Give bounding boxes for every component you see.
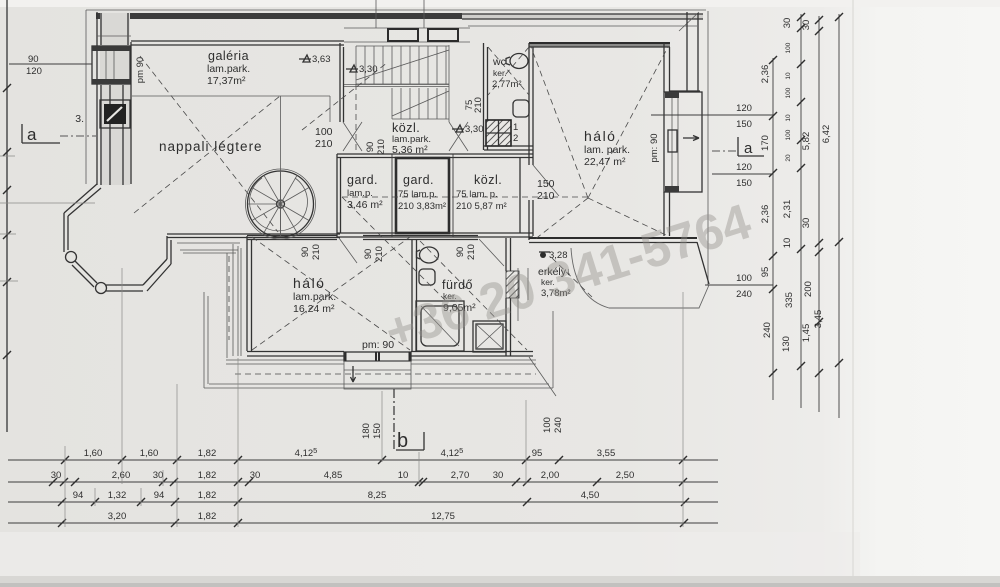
svg-text:100: 100 bbox=[785, 87, 792, 98]
svg-text:30: 30 bbox=[801, 20, 812, 31]
svg-text:gard.: gard. bbox=[347, 173, 378, 187]
svg-text:240: 240 bbox=[762, 322, 773, 338]
left edge chain bbox=[6, 0, 8, 432]
fürdő bathtub bbox=[416, 301, 464, 351]
wall gard row top bbox=[337, 154, 533, 158]
svg-text:30: 30 bbox=[51, 470, 62, 481]
svg-text:30: 30 bbox=[250, 470, 261, 481]
chimney flue black left bbox=[100, 100, 130, 128]
svg-text:30: 30 bbox=[153, 470, 164, 481]
svg-text:2,00: 2,00 bbox=[541, 470, 560, 481]
svg-text:210: 210 bbox=[374, 246, 385, 262]
bay railing upper diagonal bbox=[64, 184, 101, 216]
svg-text:2,60: 2,60 bbox=[112, 470, 131, 481]
stair dashed edge bbox=[355, 84, 357, 150]
leader 100/240 bbox=[705, 273, 773, 300]
eaves outline right bbox=[707, 11, 709, 285]
svg-text:2,36: 2,36 bbox=[760, 65, 771, 84]
right chain col3 bbox=[818, 16, 820, 412]
right chain col1 bbox=[772, 58, 774, 400]
wall corner miter top-right bbox=[679, 12, 699, 31]
svg-text:210 5,87 m²: 210 5,87 m² bbox=[456, 201, 507, 212]
fürdő shower bbox=[473, 321, 506, 352]
wall fürdő top-right corner bbox=[506, 238, 511, 271]
svg-text:240: 240 bbox=[736, 289, 752, 300]
right chain col4 bbox=[838, 14, 840, 418]
wall between halo2 and fürdő bbox=[412, 239, 417, 351]
level mark 3,30 közl bbox=[452, 124, 484, 135]
svg-text:lam.park.: lam.park. bbox=[293, 291, 336, 303]
railing post 2 bbox=[96, 283, 107, 294]
svg-text:3,46 m²: 3,46 m² bbox=[347, 199, 383, 211]
svg-text:1,82: 1,82 bbox=[198, 511, 217, 522]
dimension row 2 bbox=[8, 481, 718, 483]
svg-text:8,25: 8,25 bbox=[368, 490, 387, 501]
svg-text:150: 150 bbox=[372, 423, 383, 439]
svg-text:90: 90 bbox=[365, 142, 376, 153]
svg-text:2,50: 2,50 bbox=[616, 470, 635, 481]
galéria floor edge horizontal bbox=[132, 96, 330, 122]
level mark 3,28 erkély bbox=[539, 250, 568, 261]
svg-text:210 3,83m²: 210 3,83m² bbox=[398, 201, 446, 212]
dim 100/240 bottom window leader bbox=[542, 417, 564, 433]
eaves outline top bbox=[86, 9, 706, 11]
svg-text:lam.p.: lam.p. bbox=[347, 188, 373, 199]
svg-text:1,60: 1,60 bbox=[84, 448, 103, 459]
section line b dash-dot bbox=[393, 389, 395, 452]
svg-text:2,36: 2,36 bbox=[760, 205, 771, 224]
wall outer right of fürdő bbox=[518, 268, 528, 321]
svg-text:1,82: 1,82 bbox=[198, 490, 217, 501]
section marker a left bbox=[22, 124, 96, 144]
svg-text:90: 90 bbox=[28, 54, 39, 65]
svg-text:3,45: 3,45 bbox=[813, 310, 824, 329]
svg-text:210: 210 bbox=[311, 244, 322, 260]
wall top dark band bbox=[96, 13, 462, 19]
stair flight lower bbox=[392, 45, 449, 122]
wall halo2 left bbox=[247, 236, 252, 351]
svg-text:95: 95 bbox=[532, 448, 543, 459]
svg-text:4,50: 4,50 bbox=[581, 490, 600, 501]
wall halo left (wc column) bbox=[529, 43, 533, 240]
wall top band right part bbox=[462, 14, 703, 19]
svg-text:wc: wc bbox=[492, 56, 506, 68]
wall top inner line bbox=[468, 25, 697, 27]
svg-text:150: 150 bbox=[736, 178, 752, 189]
railing diagonal 3 bbox=[143, 259, 171, 291]
dimension row 1 bbox=[8, 459, 718, 461]
closet gard2 thick walls bbox=[396, 158, 449, 233]
svg-text:1,32: 1,32 bbox=[108, 490, 127, 501]
wall halo top bbox=[529, 42, 670, 44]
svg-text:100: 100 bbox=[785, 42, 792, 53]
roof valley to stair top bbox=[302, 62, 388, 130]
svg-text:ker.: ker. bbox=[493, 68, 507, 78]
svg-text:335: 335 bbox=[784, 292, 795, 308]
svg-text:100: 100 bbox=[785, 129, 792, 140]
svg-text:90: 90 bbox=[455, 247, 466, 258]
svg-text:22,47 m²: 22,47 m² bbox=[584, 156, 626, 168]
fürdő diagonal bbox=[420, 241, 527, 350]
svg-text:2: 2 bbox=[513, 133, 518, 144]
svg-text:100: 100 bbox=[542, 417, 553, 433]
wall halo top fill bbox=[529, 43, 670, 47]
right chain col2 bbox=[800, 14, 802, 408]
svg-text:120: 120 bbox=[736, 103, 752, 114]
svg-text:16,24 m²: 16,24 m² bbox=[293, 303, 335, 315]
wall stairwell left bbox=[340, 43, 344, 122]
svg-text:90: 90 bbox=[300, 247, 311, 258]
wall below chimney bbox=[484, 146, 533, 150]
eaves corner diagonal bottom right bbox=[529, 311, 556, 396]
railing horizontal bbox=[106, 285, 143, 291]
svg-text:közl.: közl. bbox=[474, 173, 502, 187]
svg-text:150: 150 bbox=[736, 119, 752, 130]
window W1 left wall bbox=[92, 46, 130, 84]
svg-text:100: 100 bbox=[736, 273, 752, 284]
svg-text:5,36 m²: 5,36 m² bbox=[392, 144, 428, 156]
svg-text:3,55: 3,55 bbox=[597, 448, 616, 459]
door D1 halo2 leaf bbox=[339, 238, 357, 263]
svg-text:gard.: gard. bbox=[403, 173, 434, 187]
terrace corner verticals bbox=[227, 244, 241, 358]
wall halo2 top bbox=[247, 236, 337, 240]
svg-text:2,70: 2,70 bbox=[451, 470, 470, 481]
wall fürdő bottom bbox=[411, 352, 533, 357]
wall galeria inner top bbox=[131, 41, 344, 45]
svg-text:pm: 90: pm: 90 bbox=[649, 133, 660, 162]
svg-text:6,42: 6,42 bbox=[821, 125, 832, 144]
terrace inner lines bbox=[177, 243, 240, 253]
window W2 bottom bbox=[344, 352, 411, 389]
svg-text:17,37m²: 17,37m² bbox=[207, 75, 246, 87]
chimney block hatched bbox=[486, 120, 518, 146]
svg-text:10: 10 bbox=[785, 72, 792, 80]
roof valley halo top-left bbox=[531, 47, 588, 198]
door D2 fürdő leaf bbox=[479, 239, 504, 266]
wall left poché fill bbox=[100, 13, 130, 185]
svg-text:180: 180 bbox=[361, 423, 372, 439]
roof valley halo bottom-left bbox=[534, 198, 588, 240]
svg-text:4,85: 4,85 bbox=[324, 470, 343, 481]
svg-text:200: 200 bbox=[803, 281, 814, 297]
wc toilet bbox=[506, 54, 528, 69]
svg-text:1,82: 1,82 bbox=[198, 448, 217, 459]
svg-text:120: 120 bbox=[736, 162, 752, 173]
wall left inner face bbox=[130, 42, 132, 184]
svg-text:94: 94 bbox=[154, 490, 165, 501]
wall stairwell top windows bbox=[344, 0, 470, 42]
wall halo right with window bbox=[664, 43, 670, 236]
dim 90/120 left window bbox=[9, 54, 92, 77]
svg-text:150: 150 bbox=[537, 178, 555, 190]
svg-text:30: 30 bbox=[493, 470, 504, 481]
wall top band right fill bbox=[462, 14, 703, 19]
x-brace below stairs bbox=[343, 122, 468, 151]
svg-text:75 lam. p.: 75 lam. p. bbox=[456, 189, 498, 200]
bay railing diagonal 2 bbox=[72, 261, 97, 287]
svg-text:2,77m²: 2,77m² bbox=[492, 79, 522, 90]
roof valley halo top-right bbox=[588, 47, 668, 198]
level mark 3,63 bbox=[299, 54, 331, 65]
svg-text:12,75: 12,75 bbox=[431, 511, 455, 522]
svg-text:3,20: 3,20 bbox=[108, 511, 127, 522]
svg-text:3,63: 3,63 bbox=[312, 54, 331, 65]
svg-text:100: 100 bbox=[315, 126, 333, 138]
eaves outline left bbox=[85, 10, 87, 184]
wall közl2 right / erkély jamb bbox=[519, 157, 521, 233]
svg-text:1,45: 1,45 bbox=[801, 324, 812, 343]
svg-text:120: 120 bbox=[26, 66, 42, 77]
roof valley to top-left bbox=[140, 56, 278, 232]
wall halo bottom / erkély edge bbox=[529, 237, 697, 239]
eaves lower-left bbox=[204, 292, 553, 388]
svg-text:170: 170 bbox=[760, 135, 771, 151]
level mark 3,30 stair bbox=[346, 64, 378, 75]
svg-text:130: 130 bbox=[781, 336, 792, 352]
svg-text:b: b bbox=[397, 430, 408, 452]
svg-text:30: 30 bbox=[801, 218, 812, 229]
svg-text:240: 240 bbox=[553, 417, 564, 433]
wall gard1 left bbox=[337, 154, 341, 237]
svg-text:közl.: közl. bbox=[392, 121, 420, 135]
svg-text:a: a bbox=[27, 125, 37, 144]
svg-text:90: 90 bbox=[363, 249, 374, 260]
erkély door sill hatch bbox=[506, 271, 519, 298]
roof ridge dashed bbox=[342, 196, 588, 198]
svg-text:a: a bbox=[744, 140, 753, 157]
svg-text:210: 210 bbox=[315, 138, 333, 150]
wall halo2 bottom bbox=[247, 352, 344, 357]
wall wc left bbox=[484, 43, 488, 150]
svg-text:5,82: 5,82 bbox=[801, 132, 812, 151]
svg-text:30: 30 bbox=[782, 18, 793, 29]
section marker b bbox=[396, 430, 424, 452]
overhang dashed bottom bbox=[235, 373, 536, 375]
svg-text:nappali légtere: nappali légtere bbox=[159, 139, 263, 154]
svg-text:210: 210 bbox=[466, 244, 477, 260]
galéria floor edge vertical bbox=[280, 96, 282, 236]
wall outer face below bottom bbox=[226, 360, 536, 364]
svg-text:3,30: 3,30 bbox=[359, 64, 378, 75]
svg-text:210: 210 bbox=[537, 190, 555, 202]
svg-text:pm 90: pm 90 bbox=[135, 57, 146, 83]
fürdő basin bbox=[419, 269, 435, 285]
wall halo2/fürdő top right bbox=[363, 236, 478, 240]
wc basin bbox=[513, 100, 529, 117]
svg-text:galéria: galéria bbox=[208, 49, 249, 63]
railing end vertical bbox=[167, 236, 171, 264]
svg-text:háló: háló bbox=[584, 128, 616, 144]
halo2 diagonal 2 bbox=[252, 237, 410, 350]
bay railing vertical bbox=[64, 213, 68, 252]
terrace edge line bbox=[167, 234, 340, 238]
svg-text:10: 10 bbox=[782, 238, 793, 249]
balcony floor outline bbox=[571, 248, 709, 308]
wc diagonals bbox=[488, 47, 529, 95]
railing post 1 bbox=[66, 252, 77, 263]
svg-text:2,31: 2,31 bbox=[782, 200, 793, 219]
watermark phone number bbox=[378, 193, 757, 361]
svg-text:lam.park.: lam.park. bbox=[207, 63, 250, 75]
wall left outer bbox=[97, 12, 128, 185]
stair landing bbox=[344, 85, 449, 87]
leader 120/150 upper bbox=[651, 103, 773, 130]
door D3 halo leaf bbox=[533, 165, 559, 196]
fürdő toilet bbox=[417, 247, 439, 263]
svg-text:1,60: 1,60 bbox=[140, 448, 159, 459]
eaves diagonal balcony bbox=[697, 242, 709, 284]
halo2 diagonal 1 bbox=[252, 237, 410, 350]
stair flight upper bbox=[356, 46, 449, 84]
roof valley to bay bbox=[134, 96, 280, 213]
dimension row 3 bbox=[8, 501, 718, 503]
roof valley to lower bbox=[342, 197, 445, 300]
svg-text:1: 1 bbox=[513, 122, 518, 133]
svg-text:3,30: 3,30 bbox=[465, 124, 484, 135]
svg-text:210: 210 bbox=[376, 139, 387, 155]
svg-text:háló: háló bbox=[293, 275, 325, 291]
wall right upper band bbox=[670, 12, 700, 91]
svg-text:lam. park.: lam. park. bbox=[584, 144, 630, 156]
wall gard row bottom bbox=[337, 233, 533, 237]
section marker a right bbox=[712, 137, 764, 157]
extension lines bottom bbox=[65, 268, 683, 527]
svg-text:20: 20 bbox=[785, 154, 792, 162]
svg-text:3.: 3. bbox=[75, 113, 84, 125]
terrace dashed vertical bbox=[228, 256, 230, 340]
leader 120/150 lower bbox=[712, 162, 773, 189]
svg-text:10: 10 bbox=[785, 114, 792, 122]
wall left lower band bbox=[101, 85, 123, 185]
spiral stair bbox=[248, 171, 314, 237]
svg-text:95: 95 bbox=[760, 267, 771, 278]
wall fürdő right lower bbox=[506, 298, 511, 356]
erkély diagonal bbox=[552, 258, 592, 297]
roof valley halo bottom-right bbox=[588, 198, 668, 236]
svg-text:94: 94 bbox=[73, 490, 84, 501]
dimension row 4 bbox=[8, 522, 718, 524]
svg-text:1,82: 1,82 bbox=[198, 470, 217, 481]
window W3 halo right bbox=[664, 92, 702, 192]
svg-text:210: 210 bbox=[473, 97, 484, 113]
svg-text:10: 10 bbox=[398, 470, 409, 481]
svg-text:75 lam.p.: 75 lam.p. bbox=[398, 189, 437, 200]
